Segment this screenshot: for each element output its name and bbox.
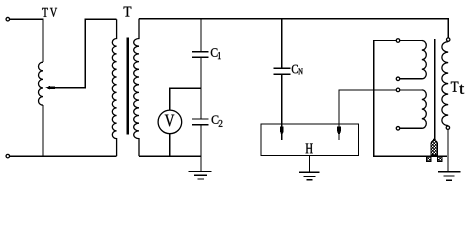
tap circles: [396, 39, 400, 43]
label TV-T: [42, 8, 48, 17]
top main wire: [139, 19, 448, 38]
terminal top-left: [6, 17, 10, 21]
wire bottom-left: [10, 155, 117, 157]
Tt tap4 wire: [400, 127, 422, 129]
Tt core / bushing lead: [434, 39, 436, 140]
ground under divider: [188, 156, 211, 179]
autotransformer TV winding: [39, 62, 44, 105]
wiper arrow of TV: [50, 19, 117, 88]
bushing body: [431, 139, 438, 156]
label Tt-T: [451, 82, 459, 92]
Tt tap1 wire: [374, 41, 447, 157]
capacitor CN: [274, 67, 291, 69]
wire voltmeter bottom: [169, 134, 171, 157]
wire right arrow from tap: [339, 90, 396, 124]
label Tt-t: [459, 85, 464, 94]
label TV-V: [50, 8, 57, 17]
label CN-C: [292, 65, 298, 74]
label C2-C: [212, 116, 219, 124]
label V: [165, 115, 175, 127]
wire C1 branch upper: [200, 19, 202, 52]
Tt tap3 wire continues to winding: [396, 89, 422, 91]
wire CN branch upper: [281, 19, 283, 68]
ground right: [438, 172, 460, 181]
bushing flange squares: [427, 156, 431, 161]
capacitor C1: [192, 51, 209, 53]
Tt tap2 wire: [400, 78, 422, 80]
label T: [124, 7, 132, 17]
wire HV bottom to ground: [447, 130, 449, 172]
label H: [306, 144, 313, 154]
H box: [261, 124, 359, 156]
Tt winding upper section: [422, 41, 427, 79]
wire C2 bottom: [200, 125, 202, 156]
ground under H box: [299, 156, 320, 180]
wire top-left to TV: [10, 19, 43, 62]
wire C1 to C2: [200, 58, 202, 119]
wire bottom from T to ground node: [139, 155, 201, 157]
label CN-N: [298, 69, 302, 75]
capacitor C2: [192, 118, 209, 120]
Tt HV winding: [442, 42, 448, 126]
wire CN to H box: [281, 75, 283, 124]
transformer T secondary winding: [134, 19, 139, 157]
voltmeter V: [158, 110, 182, 134]
arrow left inside box: [281, 124, 283, 140]
Tt HV terminals: [447, 38, 450, 41]
label C1-C: [211, 48, 218, 57]
wire branch to voltmeter: [170, 88, 201, 110]
label C2-2: [219, 120, 223, 127]
wire TV bottom: [42, 105, 44, 156]
Tt winding lower section: [422, 90, 427, 128]
arrow right inside box: [338, 124, 340, 140]
transformer T core: [126, 37, 129, 134]
transformer T primary winding: [112, 19, 116, 156]
label C1-1: [218, 52, 221, 59]
terminal bottom-left: [6, 154, 10, 158]
